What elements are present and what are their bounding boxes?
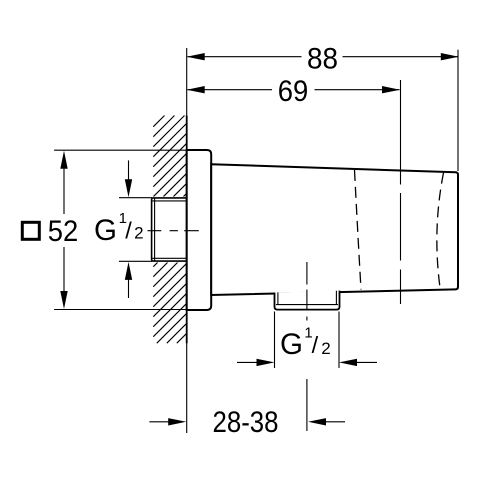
svg-text:28-38: 28-38: [213, 406, 279, 439]
dimension arrow outlet left: [237, 361, 257, 363]
centerline inlet axis (horizontal dash-dot): [148, 230, 199, 232]
label G 1/2 outlet: [280, 325, 331, 362]
dimension 52 square symbol: [22, 222, 39, 239]
wire extension line 52 top: [54, 149, 187, 151]
dimension arrow inlet bottom: [128, 280, 130, 299]
svg-text:/: /: [125, 218, 132, 244]
svg-text:2: 2: [321, 339, 330, 358]
dimension 28-38 right arrow: [326, 421, 345, 423]
hidden cone edge left (dashed): [355, 170, 362, 290]
svg-text:2: 2: [134, 224, 143, 243]
dimension 69 left arrow: [187, 86, 205, 93]
dimension arrow inlet top: [128, 160, 130, 179]
hidden cone edge right (dashed): [437, 173, 444, 288]
svg-text:/: /: [312, 332, 319, 358]
inlet nipple thread inner lines: [152, 198, 187, 260]
dimension 28-38 left arrow: [149, 421, 169, 423]
wall hatching: [153, 116, 186, 344]
wire wall surface line: [186, 48, 188, 433]
wire extension line 52 bottom: [54, 309, 187, 311]
dimension arrow outlet right: [357, 361, 378, 363]
threaded inlet nipple outline: [152, 198, 187, 261]
dimension 88 line: [188, 56, 459, 58]
centerline holder pivot axis (dash-dot vertical, 69 extension): [400, 80, 402, 304]
dimension 52 bottom arrow: [60, 291, 67, 309]
svg-text:G: G: [280, 328, 303, 361]
threaded inlet nipple (in wall) white mask: [150, 197, 186, 263]
dimension 88 right arrow: [441, 53, 459, 60]
flange of wall union: [187, 150, 212, 310]
dimension 52 line: [63, 168, 65, 292]
svg-text:52: 52: [48, 215, 79, 248]
wire extension line for G1/2 bottom: [119, 260, 152, 262]
bottom outlet nipple: [275, 291, 340, 310]
dimension 69 line: [188, 89, 400, 91]
svg-text:88: 88: [307, 42, 338, 75]
body of wall union: [211, 164, 458, 295]
svg-text:G: G: [94, 214, 117, 247]
dimension 52 top arrow: [60, 151, 67, 169]
svg-text:69: 69: [278, 75, 309, 108]
dimension 88 left arrow: [187, 53, 205, 60]
wire extension line right (88): [457, 50, 459, 171]
wire extension line outlet left: [274, 312, 276, 369]
centerline outlet axis (dash-dot vertical, 28-38 extension): [306, 262, 308, 431]
wire extension line outlet right: [338, 312, 340, 369]
dimension 69 right arrow: [382, 86, 400, 93]
wire extension line for G1/2 top: [119, 197, 152, 199]
label G 1/2 inlet: [94, 210, 144, 247]
outlet nipple thread inner lines: [276, 291, 338, 305]
